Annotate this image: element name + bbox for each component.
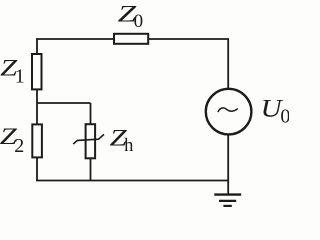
wire left vertical branch: [36, 38, 38, 181]
AC source U0 circle: [206, 89, 252, 135]
resistor Z2: [32, 124, 42, 157]
ground: [214, 195, 241, 206]
adjustability strike through Zh: [73, 134, 104, 144]
wire Zh vertical branch: [90, 103, 92, 181]
svg-text:1: 1: [15, 66, 25, 88]
AC sine tilde symbol: [218, 108, 238, 112]
wire middle horizontal branch to Zh: [37, 102, 91, 104]
wire top rail: [36, 38, 229, 40]
svg-text:2: 2: [14, 135, 24, 157]
svg-text:h: h: [124, 136, 133, 156]
svg-text:0: 0: [280, 105, 289, 127]
svg-text:0: 0: [134, 11, 144, 32]
resistor Z0: [114, 34, 148, 44]
wire bottom rail: [36, 180, 228, 182]
resistor Zh: [86, 124, 96, 158]
resistor Z1: [32, 54, 42, 89]
wire right vertical with source: [227, 39, 229, 195]
